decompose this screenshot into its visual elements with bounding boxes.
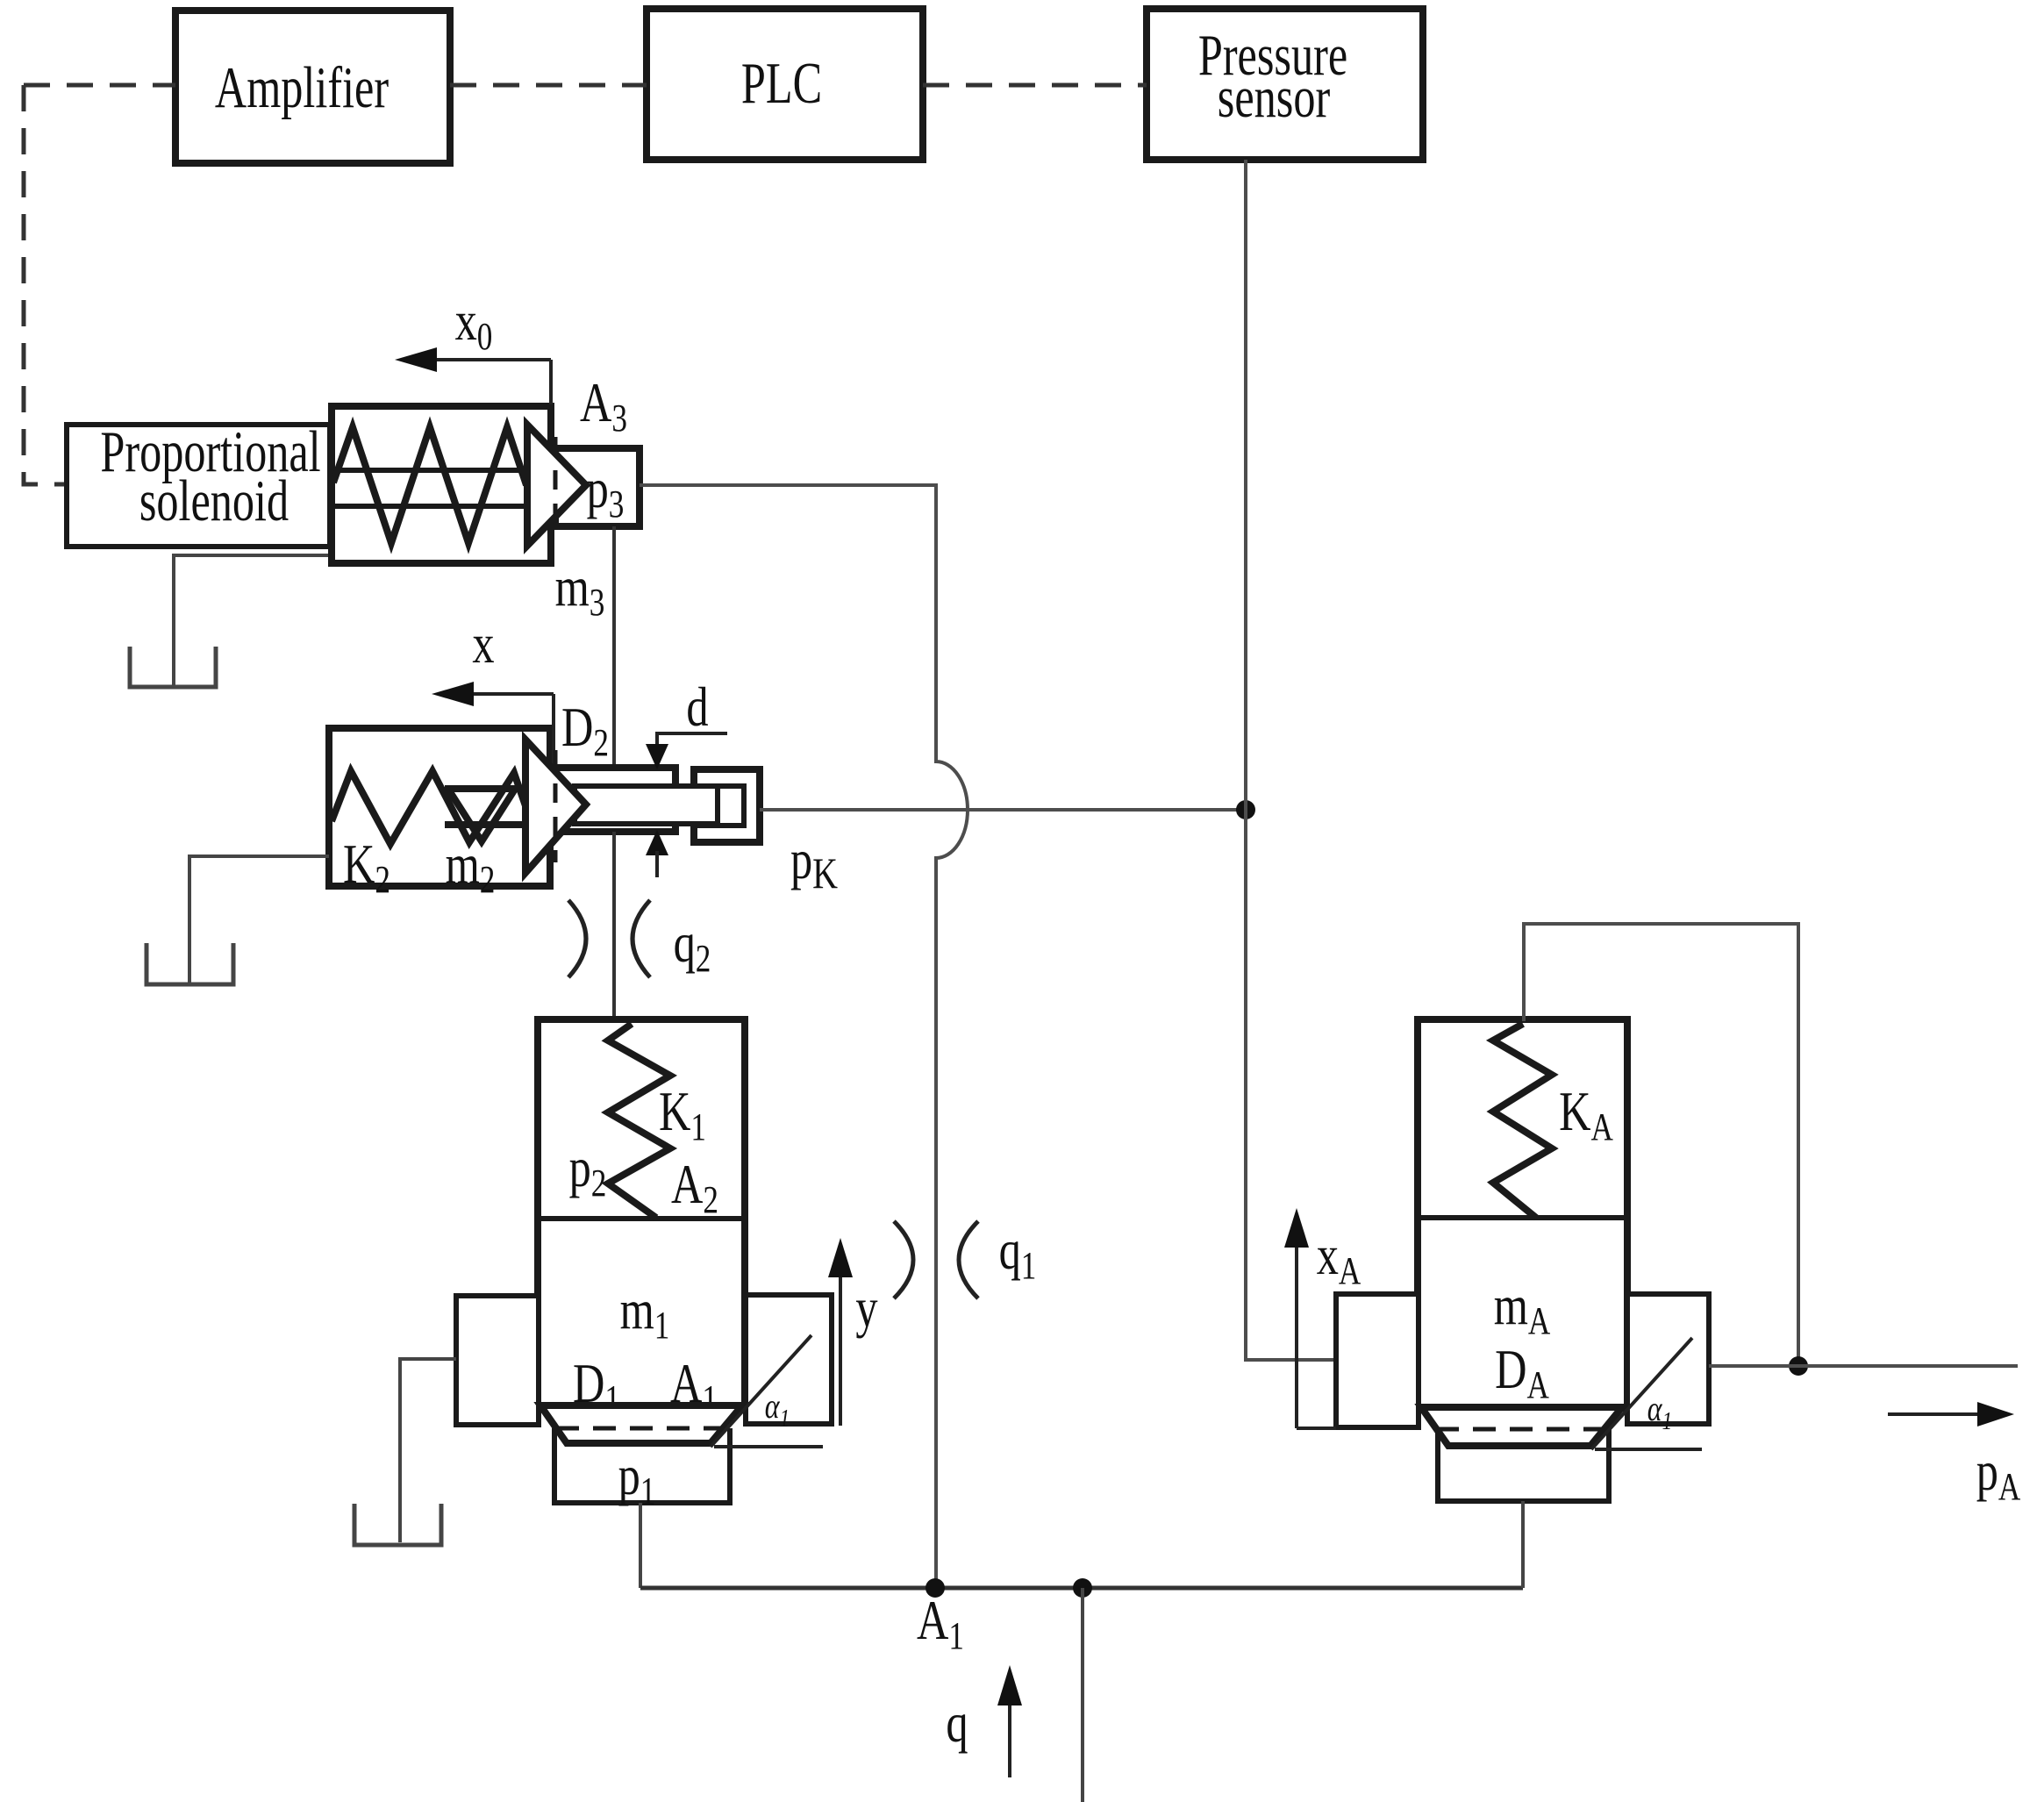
seat dashed line xyxy=(556,1427,726,1431)
tank T2 xyxy=(354,1504,441,1545)
svg-text:d: d xyxy=(686,677,708,739)
armature cone V3 xyxy=(527,425,586,546)
piston divider line right valve xyxy=(1419,1215,1627,1220)
right guide block right valve xyxy=(1627,1294,1709,1424)
orifice q1 arcs xyxy=(894,1221,913,1298)
mass m2 spring V xyxy=(449,790,514,841)
block Pressure sensor xyxy=(1147,9,1423,160)
orifice q2 arcs xyxy=(568,900,586,977)
seat box right valve xyxy=(1438,1429,1609,1501)
label K2 xyxy=(343,834,390,901)
spool end cap xyxy=(694,769,760,842)
poppet cone right valve xyxy=(1421,1407,1622,1446)
wire pK xyxy=(760,808,1246,812)
dashed signal wire down to Proportional solenoid xyxy=(24,85,67,484)
dashed signal wire Amplifier to PLC xyxy=(450,83,647,88)
node supply xyxy=(1073,1578,1092,1598)
wire solenoid drain xyxy=(174,555,331,687)
supply manifold line xyxy=(640,1586,1523,1591)
neutral dashed line V2 xyxy=(554,750,558,862)
feedback wire loop right valve xyxy=(1524,924,1798,1366)
mass rod m3 line xyxy=(612,526,616,768)
label K1 xyxy=(659,1082,706,1148)
tank T1 xyxy=(130,647,216,687)
svg-text:Amplifier: Amplifier xyxy=(215,54,389,120)
spool rod xyxy=(575,786,718,824)
label m1 xyxy=(620,1280,670,1347)
alpha1 seat angle line right valve xyxy=(1591,1338,1692,1449)
displacement arrow x0 xyxy=(395,291,551,404)
spring K1 zigzag xyxy=(608,1024,670,1218)
wire below spool to main valve xyxy=(612,832,616,1021)
label q2 xyxy=(674,913,711,980)
label KA xyxy=(1559,1082,1613,1148)
svg-text:y: y xyxy=(855,1278,878,1340)
label pK xyxy=(790,830,838,897)
label A1 poppet xyxy=(670,1354,718,1420)
dashed signal wire PLC to Pressure sensor xyxy=(923,83,1147,88)
wire pA out xyxy=(1709,1364,2018,1368)
alpha1 ref line xyxy=(714,1445,823,1448)
node on sensor line xyxy=(1236,800,1255,819)
svg-text:PLC: PLC xyxy=(741,50,822,116)
label q1 xyxy=(999,1220,1037,1287)
spring rail lower V3 xyxy=(333,504,537,509)
displacement arrow xA xyxy=(1284,1208,1361,1428)
alpha1 ref line right valve xyxy=(1595,1448,1702,1451)
dimension d xyxy=(646,677,727,877)
wire right valve down xyxy=(1521,1501,1525,1588)
block PLC xyxy=(647,9,923,160)
wire supply down xyxy=(1081,1588,1084,1802)
label p1 xyxy=(618,1446,656,1512)
pilot stage valve V3 body xyxy=(332,406,551,563)
label alpha1 right valve xyxy=(1647,1390,1672,1435)
wire V2 drain xyxy=(189,856,329,984)
svg-text:q: q xyxy=(946,1693,968,1755)
label D1 xyxy=(573,1354,620,1420)
block Amplifier xyxy=(175,11,450,163)
label alpha1 xyxy=(765,1387,790,1433)
wire main valve drain xyxy=(400,1359,456,1542)
dashed signal wire left-edge to Amplifier xyxy=(24,83,175,88)
flow arrow pA xyxy=(1888,1402,2021,1508)
left guide block right valve xyxy=(1336,1294,1419,1427)
pilot valve V2 body (K2,m2) xyxy=(329,728,550,886)
neutral dashed line V3 xyxy=(554,437,558,535)
label m2 xyxy=(446,834,496,901)
label A3 xyxy=(580,373,627,440)
poppet cone main valve xyxy=(540,1405,742,1443)
seat box p1 xyxy=(554,1428,730,1503)
spool sleeve xyxy=(556,768,675,832)
spring KA zigzag xyxy=(1493,1024,1552,1218)
left guide block xyxy=(456,1296,539,1425)
label A2 xyxy=(671,1155,718,1221)
node A1 xyxy=(926,1578,945,1598)
right guide block xyxy=(746,1295,832,1424)
block Proportional solenoid xyxy=(67,418,330,547)
label m3 xyxy=(555,557,605,624)
armature cone V2 xyxy=(525,740,586,873)
relief valve body (KA chamber + mA) xyxy=(1418,1019,1627,1408)
label p2 xyxy=(569,1138,607,1205)
flow arrow q xyxy=(946,1665,1022,1777)
spring K2 zigzag xyxy=(332,771,539,844)
label DA xyxy=(1495,1340,1549,1406)
label A1 node xyxy=(917,1591,964,1657)
spring zigzag V3 xyxy=(333,427,526,543)
chamber p3 box xyxy=(527,425,640,546)
label D2 xyxy=(561,697,609,764)
seat dashed line right valve xyxy=(1436,1427,1606,1432)
displacement arrow y xyxy=(828,1238,878,1426)
main valve body (K1 chamber + m1) xyxy=(538,1019,746,1405)
svg-text:sensor: sensor xyxy=(1218,64,1331,130)
node feedback xyxy=(1789,1356,1808,1376)
alpha1 seat angle line xyxy=(711,1335,811,1447)
wire p3 to node A1 (with hop over pK line) xyxy=(640,485,968,1588)
wire pressure sensor sensing line xyxy=(1246,160,1336,1360)
end cap notch xyxy=(694,786,744,826)
mass m2 rod rails xyxy=(445,785,528,792)
spring rail upper V3 xyxy=(333,468,537,473)
tank T3 xyxy=(147,943,233,984)
piston divider line xyxy=(539,1216,746,1221)
displacement arrow x xyxy=(432,614,554,767)
label mA xyxy=(1494,1276,1551,1342)
svg-text:x: x xyxy=(472,614,494,676)
svg-text:solenoid: solenoid xyxy=(139,468,289,533)
wire p1 down xyxy=(639,1503,642,1588)
